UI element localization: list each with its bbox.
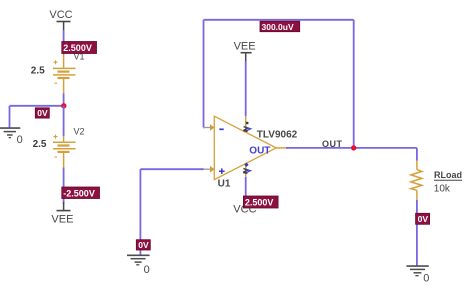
svg-text:2.5: 2.5 bbox=[33, 139, 47, 150]
voltage source V2 (battery) bbox=[53, 135, 76, 168]
wire output to RLoad bbox=[286, 147, 417, 149]
ground (left) bbox=[0, 128, 23, 146]
power terminal VEE (bottom left) bbox=[51, 202, 73, 225]
voltage source V1 (battery) bbox=[53, 53, 76, 94]
svg-text:0V: 0V bbox=[138, 240, 149, 250]
pin stub and arrow (+ input) bbox=[204, 166, 215, 173]
svg-text:RLoad: RLoad bbox=[434, 170, 462, 180]
svg-text:TLV9062: TLV9062 bbox=[257, 129, 298, 140]
svg-text:U1: U1 bbox=[218, 179, 231, 190]
U1 output pin bbox=[276, 147, 287, 149]
svg-text:VCC: VCC bbox=[49, 9, 72, 21]
U1 VCC pin with marker bbox=[243, 163, 250, 177]
op-amp U1 TLV9062 bbox=[214, 116, 276, 179]
svg-text:2.500V: 2.500V bbox=[63, 43, 92, 53]
svg-text:300.0uV: 300.0uV bbox=[262, 22, 294, 32]
voltage label 2.500V (U1 VCC) bbox=[243, 196, 278, 208]
svg-text:OUT: OUT bbox=[249, 146, 270, 157]
svg-text:VEE: VEE bbox=[51, 213, 73, 225]
svg-text:2.5: 2.5 bbox=[31, 65, 45, 76]
wire VCC terminal to V1 bbox=[63, 30, 65, 42]
wire U1 VCC pin down bbox=[245, 177, 247, 197]
wire V1 to node bbox=[63, 94, 65, 106]
power terminal VCC (top left) bbox=[49, 9, 72, 31]
U1 VEE pin with marker bbox=[243, 116, 250, 132]
voltage label 300.0uV bbox=[260, 21, 300, 32]
voltage label 0V (left) bbox=[35, 108, 49, 118]
pin stub and arrow (- input) bbox=[204, 124, 215, 131]
svg-text:0V: 0V bbox=[37, 108, 48, 118]
svg-text:2.500V: 2.500V bbox=[245, 198, 274, 208]
svg-text:0: 0 bbox=[144, 264, 150, 276]
node junction (output) bbox=[351, 145, 356, 150]
svg-text:OUT: OUT bbox=[322, 139, 343, 149]
wire non-inverting input net bbox=[140, 168, 203, 170]
feedback wire (output to inverting input) bbox=[204, 127, 205, 129]
svg-text:0: 0 bbox=[423, 272, 429, 284]
label RLoad bbox=[434, 170, 462, 180]
svg-text:0V: 0V bbox=[418, 214, 429, 224]
voltage label -2.500V bbox=[62, 187, 100, 199]
wire VEE tap to U1 bbox=[245, 61, 247, 116]
ground (middle, + input) bbox=[127, 255, 150, 276]
wire node to V2 bbox=[63, 106, 65, 136]
node junction (mid rail) bbox=[61, 103, 66, 108]
svg-text:0: 0 bbox=[17, 134, 23, 146]
svg-text:-2.500V: -2.500V bbox=[63, 188, 95, 198]
voltage label 0V (RLoad) bbox=[416, 213, 430, 224]
voltage label 2.500V bbox=[62, 42, 97, 54]
voltage label 0V (plus input) bbox=[136, 240, 150, 250]
wire node to left ground bbox=[10, 105, 64, 107]
ground (right, RLoad) bbox=[406, 266, 429, 284]
svg-text:VEE: VEE bbox=[234, 41, 256, 53]
svg-text:V2: V2 bbox=[74, 127, 85, 137]
svg-text:10k: 10k bbox=[434, 184, 451, 195]
wire V2 to VEE terminal bbox=[63, 168, 65, 205]
VEE supply tap for U1 bbox=[234, 41, 256, 63]
resistor RLoad bbox=[411, 161, 422, 200]
wire RLoad to ground bbox=[416, 200, 418, 266]
